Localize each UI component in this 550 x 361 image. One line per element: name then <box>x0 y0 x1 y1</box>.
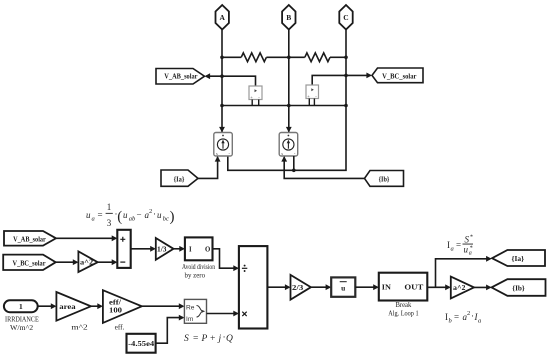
svg-text:a^2: a^2 <box>453 285 466 292</box>
gain area <box>56 292 91 321</box>
port hexagon B <box>282 5 295 30</box>
gain 1/3 <box>156 238 174 260</box>
svg-text:C: C <box>343 13 348 22</box>
resistor R1 <box>241 53 266 62</box>
port hexagon A <box>216 5 229 30</box>
constant 1 irradiance <box>4 300 38 312</box>
node C-V_BC wire <box>344 74 348 78</box>
svg-text:m^2: m^2 <box>71 323 88 331</box>
svg-text:a: a <box>451 246 454 253</box>
svg-text:V_BC_solar: V_BC_solar <box>382 72 417 80</box>
wire sum to gain 1/3 <box>131 248 155 250</box>
svg-text:P: P <box>201 334 208 344</box>
arrowhead into current source I1 top <box>219 127 225 133</box>
svg-text:by zero: by zero <box>185 271 206 279</box>
wire gain 2/3 to u-bar block <box>311 286 330 288</box>
svg-text:V_AB_solar: V_AB_solar <box>13 235 46 244</box>
arrowhead into ReIm Re <box>179 303 185 309</box>
equation Ia = S*/ua* <box>447 235 473 257</box>
svg-text:ab: ab <box>129 216 136 223</box>
wire phase B vertical <box>288 30 290 133</box>
svg-text:a^2: a^2 <box>80 260 94 267</box>
wire voltmeter2 bottom stubs <box>309 99 314 106</box>
svg-text:{Ib}: {Ib} <box>512 284 525 292</box>
wire gain eff to ReIm Re input <box>142 305 183 307</box>
svg-text:eff.: eff. <box>115 323 125 331</box>
sum block <box>117 230 130 268</box>
arrowhead into current source I2 top <box>286 127 292 133</box>
svg-text:Re: Re <box>186 304 195 311</box>
node bus-C <box>344 56 348 60</box>
arrowhead into Ib tag <box>486 285 492 291</box>
from tag Ib (mid) <box>365 171 404 187</box>
wire u-bar to break block <box>355 286 377 288</box>
arrowhead into avoid block <box>179 246 185 252</box>
svg-text:Break: Break <box>395 301 411 309</box>
wire phase C vertical and return to y170 <box>228 30 346 171</box>
wire break out to gain a^2 right <box>427 286 449 288</box>
svg-text:I: I <box>189 246 192 253</box>
wire I2 right terminal stub <box>293 156 295 170</box>
wire V_AB_solar to sum <box>56 237 116 239</box>
from tag V_AB_solar (bottom) <box>4 231 56 246</box>
wire gain area to gain eff <box>91 305 102 307</box>
node y105-B <box>287 104 291 108</box>
svg-text:3: 3 <box>107 218 112 228</box>
wire ReIm to divide multiplicand <box>207 313 238 315</box>
arrowhead into sum minus <box>112 259 118 265</box>
arrowhead into V_BC_solar tag <box>366 73 372 79</box>
svg-text:V_AB_solar: V_AB_solar <box>164 73 198 81</box>
node y105-A <box>220 104 224 108</box>
svg-text:j: j <box>217 334 222 344</box>
svg-text:bc: bc <box>163 216 169 223</box>
svg-text:W/m^2: W/m^2 <box>10 324 34 332</box>
from tag V_BC_solar (bottom) <box>3 255 56 270</box>
wire voltmeter1 bottom stubs <box>252 100 259 106</box>
arrowhead into gain a^2 <box>73 259 79 265</box>
gain 2/3 <box>291 275 311 300</box>
wire gain a^2 to Ib tag <box>474 286 490 288</box>
svg-text:1: 1 <box>107 202 112 212</box>
svg-text:u: u <box>86 210 91 220</box>
svg-text:Im: Im <box>186 316 194 323</box>
svg-text:*: * <box>470 235 473 241</box>
svg-text:=: = <box>454 312 459 322</box>
svg-text:s: s <box>216 151 218 156</box>
svg-text:b: b <box>449 318 453 325</box>
svg-text:V_BC_solar: V_BC_solar <box>13 258 47 267</box>
svg-text:2: 2 <box>149 208 152 215</box>
svg-text:u: u <box>341 283 345 292</box>
arrowhead up into I2 control <box>281 156 287 162</box>
svg-text:=: = <box>98 210 103 220</box>
wire voltmeter2 output to V_BC_solar tag <box>312 75 370 84</box>
svg-text:{Ia}: {Ia} <box>174 175 185 183</box>
svg-text:·: · <box>153 209 156 219</box>
svg-text:B: B <box>286 13 291 22</box>
arrowhead up into I1 control <box>215 156 221 162</box>
node A-V_AB wire <box>220 74 224 78</box>
wire phase A vertical <box>221 30 223 133</box>
node bus-B <box>287 56 291 60</box>
constant -4.55e4 <box>127 334 156 353</box>
goto tag V_AB_solar (top) <box>156 69 205 85</box>
svg-text:a: a <box>92 216 95 223</box>
svg-text:a: a <box>469 251 472 257</box>
svg-text:1/3: 1/3 <box>157 247 167 254</box>
svg-text:IRRDIANCE: IRRDIANCE <box>5 315 39 323</box>
svg-text:+: + <box>210 334 215 344</box>
arrowhead into break block <box>373 284 379 290</box>
wire constant to gain area <box>38 305 55 307</box>
wire gain 1/3 to avoid block <box>174 248 184 250</box>
svg-text:Q: Q <box>226 334 233 344</box>
resistor R2 <box>305 53 330 62</box>
svg-text:{Ib}: {Ib} <box>379 175 390 183</box>
svg-text:u: u <box>464 245 469 255</box>
from tag Ia (mid) <box>161 170 198 186</box>
gain a^2 (right) <box>451 277 474 299</box>
arrowhead into divide multiplicand <box>233 311 239 317</box>
equation u_a = 1/3 (u_ab - a^2 u_bc) <box>86 202 175 228</box>
svg-text:Avoid division: Avoid division <box>182 263 215 271</box>
wire branch up to Ia tag <box>436 259 491 288</box>
svg-text:{Ia}: {Ia} <box>512 255 525 263</box>
svg-text:A: A <box>219 13 225 22</box>
voltage measurement U1 <box>249 86 262 100</box>
svg-text:2/3: 2/3 <box>292 285 304 292</box>
svg-text:+: + <box>250 94 253 99</box>
avoid division block <box>185 237 213 260</box>
ReIm to complex block <box>184 299 206 323</box>
svg-text:u: u <box>157 210 162 220</box>
svg-text:*: * <box>470 245 473 251</box>
gain eff/100 <box>103 290 142 323</box>
arrowhead into u-bar block <box>326 284 332 290</box>
svg-text:O: O <box>205 246 210 253</box>
svg-text:): ) <box>170 209 175 225</box>
node I2 return junction <box>292 169 296 173</box>
voltage measurement U2 <box>306 85 319 99</box>
svg-text:+: + <box>307 93 310 98</box>
break algebraic loop block <box>379 273 428 301</box>
wire voltmeter1 output to V_AB_solar tag <box>206 76 256 86</box>
svg-text:OUT: OUT <box>404 285 423 292</box>
equation S = P + jQ <box>184 333 233 344</box>
controlled current source I1 <box>214 133 233 157</box>
goto tag Ib (bottom) <box>492 279 546 296</box>
arrowhead into divide dividend <box>233 265 239 271</box>
svg-text:Alg. Loop 1: Alg. Loop 1 <box>388 309 419 317</box>
wire Ib tag to I2 control input <box>284 157 364 178</box>
svg-text:1: 1 <box>19 302 23 311</box>
svg-text:100: 100 <box>109 308 123 315</box>
svg-text:-4.55e4: -4.55e4 <box>128 340 155 348</box>
svg-text:=: = <box>456 240 461 250</box>
svg-text:2: 2 <box>467 310 470 317</box>
wire horizontal measurement bus y105 <box>222 105 346 107</box>
svg-text:u: u <box>123 210 128 220</box>
wire divide to gain 2/3 <box>267 286 289 288</box>
wire Ia tag to I1 control input <box>198 157 218 178</box>
svg-text:(: ( <box>117 209 122 225</box>
svg-text:a: a <box>478 318 481 325</box>
svg-text:s: s <box>281 151 283 156</box>
u-bar magnitude block <box>331 277 355 296</box>
port hexagon C <box>339 5 352 30</box>
arrowhead into sum plus <box>112 235 118 241</box>
svg-text:IN: IN <box>382 285 391 292</box>
svg-text:eff/: eff/ <box>109 300 121 307</box>
wire bus segment R2-C <box>330 56 346 58</box>
goto tag V_BC_solar (top) <box>372 68 423 83</box>
wire bus segment A-R1 <box>222 56 241 58</box>
arrowhead into gain 1/3 <box>150 246 156 252</box>
arrowhead into gain area <box>51 303 57 309</box>
svg-text:S: S <box>184 334 189 344</box>
gain a^2 (left) <box>78 251 97 272</box>
arrowhead into gain 2/3 <box>285 284 291 290</box>
arrowhead into gain a^2 right <box>445 284 451 290</box>
svg-text:area: area <box>59 303 76 311</box>
equation Ib = a^2 Ia <box>445 310 481 325</box>
wire bus segment R1-B-R2 <box>266 56 304 58</box>
divide block <box>239 246 268 328</box>
node bus-A <box>220 56 224 60</box>
node y105-C <box>344 104 348 108</box>
wire avoid block to divide block <box>213 249 238 268</box>
arrowhead into ReIm Im <box>179 315 185 321</box>
arrowhead into gain eff <box>97 303 103 309</box>
arrowhead into Ia tag <box>486 256 492 262</box>
arrowhead into V_AB_solar tag <box>205 73 211 79</box>
svg-text:S: S <box>465 235 470 245</box>
wire V_BC_solar to gain a^2 <box>56 261 77 263</box>
svg-text:−: − <box>137 210 142 220</box>
wire -4.55e4 to ReIm Im input <box>156 318 183 344</box>
goto tag Ia (bottom) <box>492 250 545 266</box>
svg-text:=: = <box>193 334 198 344</box>
controlled current source I2 <box>279 133 298 157</box>
wire gain a^2 to sum minus <box>98 261 116 263</box>
